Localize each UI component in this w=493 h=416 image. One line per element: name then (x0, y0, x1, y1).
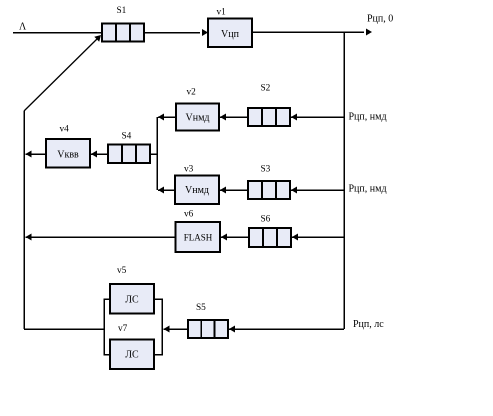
svg-text:Pцп, лс: Pцп, лс (353, 319, 384, 330)
wire S4 to V4 (91, 151, 108, 158)
label S1 (117, 6, 127, 16)
wire S5 to LS group (164, 326, 189, 333)
svg-text:S1: S1 (117, 6, 127, 16)
svg-text:v3: v3 (184, 165, 194, 175)
wire V4 output to left bus (26, 151, 47, 158)
queue S6 (249, 228, 291, 247)
queue S4 (108, 145, 150, 164)
svg-text:v4: v4 (60, 125, 70, 135)
label S6 (261, 215, 271, 225)
svg-text:Vнмд: Vнмд (185, 185, 209, 196)
wire merge line v2-v3 (156, 117, 158, 190)
svg-text:v6: v6 (184, 210, 194, 220)
wire S6 to V6 (221, 234, 249, 241)
wire V1 output to Pcp0 (252, 29, 372, 36)
svg-text:FLASH: FLASH (184, 233, 213, 243)
wire left feedback bus (23, 111, 25, 329)
svg-text:v2: v2 (187, 88, 197, 98)
queue S5 (188, 320, 228, 338)
wire V2 output to merge (158, 114, 176, 121)
wire bottom-left return run (24, 328, 104, 330)
queue S1 (102, 24, 144, 42)
wire feedback diagonal to S1 (24, 35, 101, 111)
label Pcp nmd lower (349, 184, 387, 195)
wire merge to S4 (150, 153, 157, 155)
svg-text:ЛС: ЛС (125, 350, 139, 361)
svg-text:Vцп: Vцп (221, 29, 240, 40)
label v2 (187, 88, 197, 98)
svg-text:Рцп, нмд: Рцп, нмд (349, 184, 387, 195)
label v3 (184, 165, 194, 175)
wire LS right bracket (154, 299, 162, 355)
svg-text:v1: v1 (217, 8, 227, 18)
box V1 Vcp (208, 19, 252, 48)
wire bus to S3 (291, 187, 344, 194)
wire V6 output to left bus (26, 234, 176, 241)
queue S3 (248, 181, 290, 199)
label Pcp 0 (367, 14, 393, 25)
box V4 Vkvv (46, 139, 90, 168)
queue S2 (248, 108, 290, 126)
box V3 Vnmd (175, 176, 219, 205)
node lambda input label (19, 22, 27, 33)
label Pcp nmd upper (349, 112, 387, 123)
wire S3 to V3 (220, 187, 248, 194)
wire bus to S2 (291, 114, 344, 121)
wire S1 to V1 (144, 29, 208, 36)
svg-text:ЛС: ЛС (125, 295, 139, 306)
label v1 (217, 8, 227, 18)
label v5 (117, 266, 127, 276)
svg-text:S5: S5 (196, 303, 206, 313)
svg-text:S6: S6 (261, 215, 271, 225)
box V2 Vnmd (176, 104, 219, 131)
label S4 (122, 132, 132, 142)
wire right distribution bus (343, 32, 345, 329)
label v4 (60, 125, 70, 135)
wire lambda input (13, 32, 102, 34)
box V5 LS (110, 284, 154, 314)
svg-text:S4: S4 (122, 132, 132, 142)
svg-text:v7: v7 (118, 324, 128, 334)
label v7 (118, 324, 128, 334)
svg-text:Рцп, нмд: Рцп, нмд (349, 112, 387, 123)
label S5 (196, 303, 206, 313)
svg-text:Vнмд: Vнмд (186, 113, 210, 124)
label v6 (184, 210, 194, 220)
svg-text:Vквв: Vквв (57, 150, 79, 161)
wire LS left bracket (104, 299, 110, 355)
box V6 FLASH (176, 222, 221, 252)
wire V3 output to merge (158, 187, 175, 194)
label S2 (261, 84, 271, 94)
svg-text:S2: S2 (261, 84, 271, 94)
svg-text:Pцп, 0: Pцп, 0 (367, 14, 393, 25)
svg-text:Λ: Λ (19, 22, 27, 33)
label S3 (261, 165, 271, 175)
svg-text:S3: S3 (261, 165, 271, 175)
svg-text:v5: v5 (117, 266, 127, 276)
wire bus bottom corner to S5 (229, 326, 344, 333)
wire bus to S6 (292, 234, 344, 241)
box V7 LS (110, 340, 154, 370)
wire S2 to V2 (220, 114, 248, 121)
label Pcp ls (353, 319, 384, 330)
